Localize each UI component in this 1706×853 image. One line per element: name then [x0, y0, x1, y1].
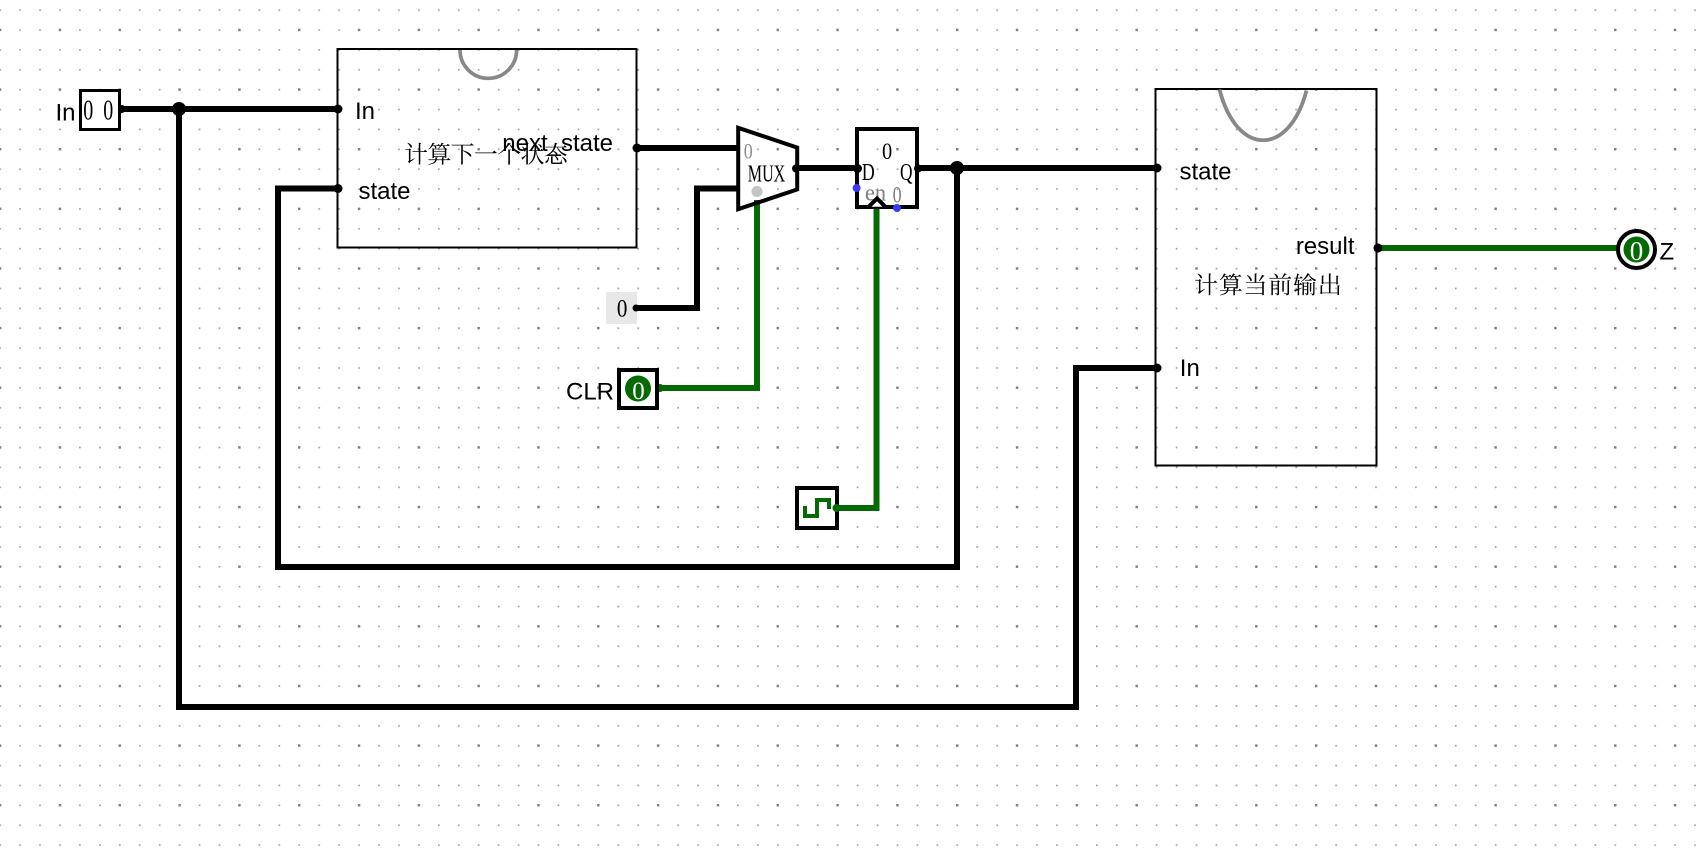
wire: CLR pin to MUX select (green) — [659, 203, 757, 388]
svg-text:Q: Q — [900, 160, 913, 186]
wire: In feedback down-right-up to box2 In port — [179, 109, 1157, 707]
svg-text:0: 0 — [617, 295, 628, 322]
subcircuit U1 box (compute next state) — [338, 49, 637, 248]
wire: Q output to box2 state port — [918, 165, 1157, 171]
wire: In pin to box1 In port — [120, 106, 338, 112]
port dot: box2 In port — [1153, 364, 1162, 373]
svg-text:0: 0 — [83, 95, 93, 127]
mux U2 — [738, 128, 797, 209]
svg-text:0: 0 — [632, 378, 645, 405]
constant 0 — [606, 292, 640, 324]
subcircuit U4 box (compute current output) — [1156, 89, 1377, 466]
svg-text:In: In — [1180, 355, 1200, 382]
svg-text:0: 0 — [103, 95, 113, 127]
node: junction at Q output branch — [950, 161, 964, 175]
output pin Z (value 0) — [1618, 231, 1655, 268]
svg-text:Z: Z — [1660, 239, 1675, 266]
U4 title 计算当前输出 — [1195, 273, 1340, 295]
svg-text:In: In — [355, 98, 375, 125]
U1 appearance notch — [460, 50, 517, 78]
U2 select port dot — [752, 186, 763, 197]
port dot: MUX output — [792, 165, 800, 173]
U3 bottom port dot (blue, unconnected) — [893, 204, 901, 212]
wire: constant 0 to MUX input 1 — [637, 189, 737, 309]
U1 title 计算下一个状态 — [405, 143, 567, 165]
svg-text:state: state — [1180, 159, 1232, 186]
input pin In (2-bit, value 0 0) — [81, 91, 120, 130]
svg-text:0: 0 — [893, 183, 902, 208]
svg-text:result: result — [1296, 233, 1355, 260]
port dot: CLR pin output — [656, 384, 664, 392]
port dot: result output — [1374, 244, 1383, 253]
wire: clock to D flip-flop clock input (green) — [839, 206, 877, 508]
node: junction at In pin branch — [172, 102, 186, 116]
port dot: DFF D input — [853, 164, 862, 173]
svg-text:MUX: MUX — [748, 162, 786, 188]
U3 clock triangle — [869, 198, 886, 206]
port dot: box1 state port — [334, 184, 343, 193]
svg-text:0: 0 — [882, 139, 892, 165]
wire: state feedback down-left-up to box1 state port — [278, 168, 957, 567]
wire: box2 result output to Z pin (green) — [1377, 245, 1618, 251]
U3 en port dot (blue, unconnected) — [853, 184, 861, 192]
svg-text:In: In — [55, 100, 75, 127]
port dot: box2 state port — [1153, 164, 1162, 173]
svg-text:0: 0 — [744, 139, 753, 164]
clock component — [797, 488, 841, 528]
port dot: In pin output — [118, 105, 126, 113]
svg-text:state: state — [359, 178, 411, 205]
input pin CLR (1-bit, value 0) — [619, 370, 657, 408]
U4 appearance notch — [1220, 90, 1307, 141]
port dot: box1 In port — [334, 105, 343, 114]
port dot: DFF Q output — [914, 165, 922, 173]
svg-text:0: 0 — [1630, 236, 1644, 266]
port dot: box1 next_state port — [633, 144, 642, 153]
wire: box1 next_state output to MUX input 0 — [637, 145, 737, 151]
D flip-flop U3 — [853, 129, 917, 212]
wire: MUX output to D flip-flop D input — [797, 165, 857, 171]
svg-text:CLR: CLR — [566, 379, 614, 406]
